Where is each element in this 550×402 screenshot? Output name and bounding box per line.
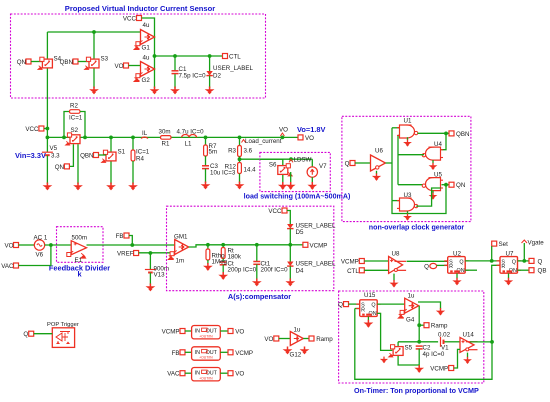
svg-text:QBN: QBN (60, 59, 73, 66)
capacitor C3 (202, 166, 209, 169)
wire S5 top (397, 342, 399, 346)
ground C2 (414, 365, 424, 373)
logic gate U4 mirrored (422, 147, 443, 160)
svg-text:3.6: 3.6 (244, 148, 253, 155)
wire V7 to ground (311, 177, 313, 183)
wire R4 to ground (132, 161, 134, 184)
switch S5 (389, 345, 403, 357)
wire R3 to R12 (239, 157, 241, 163)
svg-text:200p IC=0: 200p IC=0 (228, 267, 257, 274)
dashed box: load switching (260, 152, 330, 191)
port VO fb (14, 243, 19, 248)
wire V13 branch (149, 253, 151, 270)
resistor R12 (238, 163, 242, 174)
port QB out (529, 268, 534, 273)
node G output (153, 54, 157, 58)
node label Load_current flag (242, 140, 246, 143)
wire Q to U6 (355, 162, 370, 164)
wire U4 out (398, 154, 424, 156)
wire Set vertical (491, 246, 493, 261)
wire QN to S4 (31, 61, 42, 63)
wire U1 top input (392, 127, 400, 129)
wire V13 to ground (149, 273, 151, 285)
node R3 rail (238, 136, 242, 140)
wire U7 R riser (492, 265, 500, 342)
node VAC junction (49, 243, 53, 247)
ground U4 (429, 163, 438, 170)
wire E1 to FB node (87, 244, 175, 246)
wire U1 ground stub (407, 137, 409, 140)
wire Ramp stub (419, 324, 424, 326)
resistor Rtho (206, 249, 210, 260)
svg-text:+OUT/IN: +OUT/IN (199, 356, 213, 360)
block POP trigger A2 (52, 328, 74, 348)
wire V5 to ground (46, 155, 48, 184)
node rail V5 (46, 136, 50, 140)
switch S3 (85, 57, 99, 69)
ground U5 (429, 193, 438, 200)
svg-text:G4: G4 (406, 317, 415, 324)
wire S2 control to QN (69, 144, 73, 166)
svg-text:VO: VO (264, 336, 273, 343)
svg-text:Q: Q (345, 161, 350, 168)
resistor Rt (221, 248, 225, 259)
wire S5 to ground rail (398, 356, 419, 365)
port CTL u8 (359, 268, 364, 273)
node VCMP comp (288, 243, 292, 247)
wire U14 ground stub (467, 353, 469, 358)
svg-text:V1: V1 (441, 345, 449, 352)
switch S6 (278, 164, 292, 176)
node Rt (221, 243, 225, 247)
ground U6 (372, 173, 381, 181)
svg-text:S2: S2 (71, 127, 79, 134)
svg-text:USER_LABEL: USER_LABEL (296, 261, 336, 268)
node C1 top (173, 54, 177, 58)
dashed box: on-timer (339, 291, 484, 383)
ground D2 (205, 87, 215, 95)
dependent source E1 (67, 241, 87, 259)
svg-text:Ramp: Ramp (431, 323, 448, 330)
svg-text:Set: Set (499, 241, 509, 248)
wire R3 column (239, 137, 241, 145)
wire R7 column (205, 137, 207, 145)
svg-text:+OUT/IN: +OUT/IN (199, 334, 213, 338)
svg-text:VO: VO (235, 329, 244, 336)
wire Vgate riser (523, 243, 525, 261)
node C2 (417, 340, 421, 344)
wire VCC to G1 output column (142, 18, 155, 88)
wire U8 out to U2 S (407, 260, 448, 262)
logic gate U3 nand (397, 198, 418, 211)
wire U6 ground stub (376, 171, 378, 174)
ground C3 (201, 182, 211, 190)
svg-text:VCC: VCC (268, 208, 282, 215)
wire Rt branch (222, 245, 224, 248)
wire Q oval to U2 R (437, 264, 448, 266)
port QBN (73, 59, 78, 64)
switch S2 (66, 133, 80, 145)
wire io3 right (220, 372, 228, 374)
wire C2 to ground (418, 349, 420, 366)
ground S1 (106, 183, 116, 191)
ground D4 (285, 279, 295, 287)
port Q pop (29, 331, 34, 336)
ground Ct (218, 272, 228, 280)
wire U2 ground stub (456, 273, 458, 278)
block sample IN OUT 3 (192, 368, 221, 381)
svg-text:200f IC=0: 200f IC=0 (261, 267, 289, 274)
wire C3 to ground (205, 169, 207, 183)
wire Ct to ground (222, 265, 224, 273)
wire QBN to S3 (78, 61, 89, 63)
node S1 rail (109, 136, 113, 140)
wire io2 right (220, 351, 228, 353)
wire VCC to D5 (287, 211, 290, 225)
resistor R7 (204, 145, 208, 156)
svg-text:R3: R3 (228, 148, 236, 155)
svg-text:500m: 500m (72, 235, 87, 242)
wire D2 to ground (209, 76, 211, 88)
ground G4 (436, 308, 445, 316)
svg-text:IC=1: IC=1 (69, 115, 83, 122)
wire Q to U15 S (349, 303, 360, 305)
ground C1 (170, 87, 180, 95)
wire G4 upper ground wire (418, 302, 441, 309)
wire io3 left (185, 372, 192, 374)
wire C2 node (398, 341, 438, 343)
ground S2 (73, 183, 83, 191)
wire io2 left (185, 351, 192, 353)
port VCC rail (39, 126, 44, 131)
port Set (492, 241, 497, 246)
port VREF (134, 251, 139, 256)
wire to load box (240, 158, 283, 160)
op-amp G1 transconductance (134, 30, 155, 50)
wire VCMP stub (290, 244, 303, 246)
svg-text:V13: V13 (154, 272, 166, 279)
wire G12 out (303, 338, 309, 340)
wire io1 left (185, 330, 192, 332)
wire VAC (19, 245, 51, 266)
wire U14 out loop (470, 341, 492, 343)
port VCMP io1 (180, 329, 185, 334)
node QBN (444, 132, 448, 136)
wire U2 Q to U7 S (465, 260, 500, 262)
wire Rt to Ct (222, 259, 224, 263)
node LDSW (289, 157, 293, 161)
capacitor Ct1 (253, 262, 260, 265)
svg-text:QBN: QBN (80, 153, 93, 160)
wire U7 Q out (518, 260, 530, 262)
port Q ontimer (344, 302, 349, 307)
wire U1 out to QBN (418, 132, 450, 134)
svg-text:Ramp: Ramp (316, 336, 333, 343)
diode D4 (287, 262, 293, 267)
svg-text:Vo=1.8V: Vo=1.8V (297, 125, 325, 134)
resistor R3 (238, 146, 242, 157)
wire VCMP to U8 (364, 260, 388, 262)
port VAC (14, 263, 19, 268)
svg-text:IC=1: IC=1 (136, 149, 150, 156)
wire top input to G1 (47, 31, 141, 33)
wire clock vertical A (391, 128, 393, 201)
svg-text:R: R (501, 264, 505, 270)
wire V7 top (311, 159, 313, 167)
wire D4 to ground (289, 266, 291, 279)
svg-text:VO: VO (5, 243, 14, 250)
logic gate U5 mirrored (422, 178, 443, 191)
svg-text:USER_LABEL: USER_LABEL (213, 65, 253, 72)
port VO io1 (228, 329, 233, 334)
node label IL flag (141, 137, 148, 139)
wire U5 ground stub (432, 191, 434, 193)
wire V1 to U14 (445, 341, 461, 343)
svg-text:Q: Q (338, 302, 343, 309)
wire S6 to ground (282, 175, 284, 183)
comparator U8 (389, 256, 407, 273)
port QBN power (94, 153, 99, 158)
wire G4 out vertical (418, 306, 420, 342)
wire D2 branch (209, 56, 211, 71)
wire R12 to ground (239, 174, 241, 184)
svg-text:AC 1: AC 1 (34, 235, 48, 242)
comparator U14 (460, 337, 478, 352)
wire FB stub (129, 236, 132, 246)
port QN power (64, 164, 69, 169)
wire U3 out (416, 188, 441, 206)
port VCMP io2 (228, 350, 233, 355)
port VO sensor (124, 63, 129, 68)
svg-text:U7: U7 (506, 251, 514, 258)
svg-text:VCMP: VCMP (235, 350, 253, 357)
svg-text:V6: V6 (36, 252, 44, 259)
node label LDSW flag (289, 159, 293, 162)
svg-text:R4: R4 (136, 156, 144, 163)
svg-text:R: R (361, 307, 365, 313)
ground R4 (128, 183, 138, 191)
svg-text:180k: 180k (228, 254, 242, 261)
ground Rtho (203, 263, 213, 271)
dashed box: compensator (167, 206, 334, 291)
node R7 rail (204, 136, 208, 140)
node U14 out (490, 340, 494, 344)
wire QBN to U4 (441, 133, 446, 149)
svg-text:QB: QB (538, 268, 547, 275)
wire S2 to ground (77, 144, 79, 184)
port VCMP u8 (359, 259, 364, 264)
wire feedback to U15 R (355, 308, 360, 310)
port CTL (223, 54, 228, 59)
svg-text:U5: U5 (434, 172, 442, 179)
svg-text:R: R (449, 264, 453, 270)
svg-text:VO: VO (279, 127, 288, 134)
wire VO to G12 (279, 338, 291, 340)
wire clock vertical B (397, 135, 399, 184)
node R2 right (83, 136, 87, 140)
wire VCC port stub (44, 128, 48, 130)
wire U5 input from QN (442, 184, 450, 186)
svg-text:1m: 1m (176, 258, 185, 265)
wire R7 to C3 (205, 156, 207, 166)
ground U8 (389, 280, 398, 288)
ground V5 (43, 183, 53, 191)
svg-text:QN: QN (55, 164, 64, 171)
wire sensor output node (155, 55, 223, 57)
svg-text:1u: 1u (294, 327, 301, 334)
svg-text:VCC: VCC (25, 126, 39, 133)
node R2 left (62, 136, 66, 140)
port QBN clock (449, 131, 454, 136)
ground G12 right (300, 347, 310, 355)
block sample IN OUT 2 (192, 347, 221, 360)
node D2 top (208, 54, 212, 58)
wire LDSW net (260, 158, 312, 160)
port Q clock (350, 161, 355, 166)
svg-text:Vin=3.3V: Vin=3.3V (15, 151, 46, 160)
voltage source V5 (42, 152, 53, 155)
svg-text:G12: G12 (290, 352, 302, 359)
svg-text:VCMP: VCMP (430, 366, 448, 373)
port Q out (529, 258, 534, 263)
op-amp G4 transconductance (398, 298, 419, 318)
wire C1 branch (174, 56, 176, 71)
svg-text:U4: U4 (434, 141, 442, 148)
node VCC stub (46, 127, 50, 131)
svg-text:non-overlap clock generator: non-overlap clock generator (369, 224, 465, 232)
dashed box: feedback divider (57, 227, 104, 263)
svg-text:VCMP: VCMP (341, 259, 359, 266)
svg-text:QBN: QBN (456, 131, 469, 138)
wire VO to V6 (19, 244, 35, 246)
svg-text:FB: FB (172, 350, 180, 357)
wire GM1 out (189, 245, 291, 247)
svg-text:+OUT/IN: +OUT/IN (199, 376, 213, 380)
port VCC sensor (137, 16, 142, 21)
svg-text:14.4: 14.4 (244, 167, 257, 174)
logic gate U1 nand (397, 125, 418, 138)
wire U4 ground stub (432, 160, 434, 163)
svg-text:GM1: GM1 (174, 234, 188, 241)
op-amp GM1 transconductance (168, 240, 189, 260)
svg-text:30m: 30m (159, 129, 171, 136)
inverter U6 (371, 155, 386, 171)
ground U7 (504, 278, 513, 286)
wire V6 to E1 (45, 244, 71, 246)
svg-text:4u: 4u (143, 22, 150, 29)
svg-text:U14: U14 (463, 332, 475, 339)
svg-text:U15: U15 (364, 292, 376, 299)
ground S6 control (286, 182, 296, 190)
ground U2 (452, 278, 461, 286)
svg-text:POP Trigger: POP Trigger (47, 322, 79, 328)
svg-text:On-Timer: Ton proportional to: On-Timer: Ton proportional to VCMP (354, 386, 479, 395)
svg-text:R1: R1 (162, 141, 170, 148)
ground S6 (278, 182, 288, 190)
ground U1 (403, 140, 412, 147)
port FB io2 (180, 350, 185, 355)
svg-text:VCMP: VCMP (162, 329, 180, 336)
ground G12 left (283, 347, 293, 355)
flip-flop U15 (356, 300, 381, 317)
svg-text:3.3: 3.3 (51, 153, 60, 160)
wire S1 column (110, 137, 112, 184)
wire U1 lower input (398, 134, 400, 136)
node Rtho (206, 243, 210, 247)
svg-text:QN: QN (17, 59, 26, 66)
svg-text:1Meg: 1Meg (212, 259, 228, 266)
port VO out (298, 135, 303, 140)
ground G1 G2 column (150, 87, 160, 95)
svg-text:Vgate: Vgate (528, 240, 545, 247)
svg-text:G2: G2 (142, 77, 151, 84)
dashed box: current sensor (11, 14, 266, 98)
node label Vgate flag (522, 240, 528, 243)
wire U7 QN out (518, 269, 530, 271)
svg-text:Q: Q (23, 331, 28, 338)
port FB (124, 233, 129, 238)
svg-text:R2: R2 (70, 103, 78, 110)
port QN (26, 59, 31, 64)
voltage source V13 (145, 270, 156, 273)
svg-text:FB: FB (116, 233, 124, 240)
wire S4 column (46, 32, 48, 137)
wire D5 to VCMP node (289, 229, 291, 262)
svg-text:VAC: VAC (1, 263, 14, 270)
resistor R1 (161, 136, 172, 140)
wire U3 top input (392, 200, 400, 202)
wire io1 right (220, 330, 228, 332)
wire U5 out to B (398, 184, 424, 186)
port Ramp (424, 323, 429, 328)
svg-text:S5: S5 (405, 345, 413, 352)
node V13 junction (149, 251, 153, 255)
svg-text:VAC: VAC (167, 371, 180, 378)
svg-text:load switching (100mA~500mA): load switching (100mA~500mA) (244, 193, 351, 201)
voltage source V6 ac (34, 240, 44, 250)
op-amp G2 transconductance (134, 62, 155, 82)
svg-text:U6: U6 (375, 148, 383, 155)
svg-text:R12: R12 (225, 164, 237, 171)
node Vgate (522, 259, 526, 263)
svg-text:E1: E1 (75, 257, 83, 264)
wire U3 ground stub (407, 211, 409, 214)
wire R2 right (80, 112, 85, 138)
voltage source V1 (441, 337, 444, 347)
switch S4 (38, 57, 52, 69)
svg-text:U1: U1 (404, 118, 412, 125)
svg-text:S6: S6 (269, 162, 277, 169)
svg-text:VO: VO (235, 371, 244, 378)
node label VO flag (280, 133, 284, 136)
wire main rail (47, 136, 298, 138)
port VAC io3 (180, 371, 185, 376)
node Ramp (417, 323, 421, 327)
svg-text:LDSW: LDSW (294, 157, 312, 164)
svg-text:D4: D4 (296, 268, 304, 275)
wire U15 ground stub (367, 317, 369, 321)
svg-text:QN: QN (456, 182, 465, 189)
svg-text:5m: 5m (209, 149, 218, 156)
node R4 rail (131, 136, 135, 140)
resistor R2 (70, 110, 81, 114)
flip-flop U7 (497, 257, 522, 274)
wire U15 QN control (377, 313, 392, 350)
ground V7 (307, 182, 317, 190)
svg-text:G1: G1 (142, 45, 151, 52)
ground U15 (364, 320, 374, 328)
dashed box: clock generator (342, 116, 471, 221)
